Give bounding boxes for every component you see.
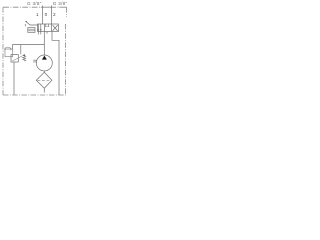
breather body (5, 49, 13, 57)
wire P line valve to pump (43, 32, 45, 56)
pump circle (36, 55, 52, 71)
svg-text:G 3/8”: G 3/8” (53, 1, 68, 6)
leader line port A (42, 6, 44, 25)
valve position 1 straight paths (38, 24, 41, 32)
relief valve spring (23, 56, 26, 61)
wire relief to tank (13, 62, 15, 95)
wire pump to filter (43, 71, 45, 73)
relief valve body (11, 55, 18, 63)
svg-text:1: 1 (36, 12, 39, 17)
lever (25, 22, 37, 26)
enclosure dash-dot border (3, 7, 67, 95)
wire relief branch (13, 45, 45, 49)
valve bottom plugged stubs (38, 32, 47, 35)
relief valve arrow (12, 55, 23, 61)
svg-text:0: 0 (45, 12, 48, 17)
wire T line valve to tank (52, 32, 59, 96)
directional valve body (38, 24, 59, 32)
pump triangle (42, 56, 47, 60)
svg-text:2: 2 (53, 12, 56, 17)
detent (28, 28, 35, 33)
valve position 0 blocked stubs (45, 24, 49, 26)
filter diamond (36, 72, 52, 88)
wire pilot to spring (20, 45, 22, 55)
filter mesh dashed (38, 79, 52, 81)
leader line port B (50, 6, 52, 25)
wire filter suction stub (43, 88, 45, 92)
breather dome (5, 47, 11, 50)
svg-text:G 3/8”: G 3/8” (27, 1, 42, 6)
valve position 2 crossed paths (53, 25, 58, 31)
pump shaft (33, 60, 36, 62)
